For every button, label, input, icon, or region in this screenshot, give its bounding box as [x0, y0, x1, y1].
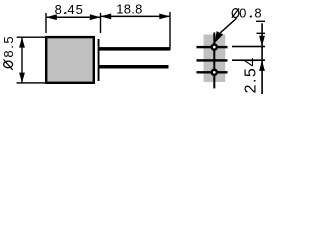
svg-text:2.54: 2.54 [242, 56, 259, 93]
pad hole 3 [212, 70, 217, 75]
dimension Ø0.8 text [232, 5, 264, 20]
dimension 18.8 line [101, 16, 171, 18]
pad row 1 line [197, 46, 228, 48]
extension line top (body top edge extended) [17, 37, 46, 38]
dimension Ø8.5 bottom arrow [19, 73, 25, 83]
dimension 8.45 right arrow [90, 14, 101, 20]
dimension 2.54 up arrow [259, 60, 265, 71]
extension line middle (x100.5) [100, 13, 101, 33]
svg-text:8.45: 8.45 [55, 2, 84, 17]
dimension 18.8 left arrow [101, 14, 112, 20]
component body (side view, cylinder seen from side) [46, 37, 94, 83]
flange / rear disc line [98, 39, 100, 81]
dimension Ø8.5 line [21, 37, 22, 83]
pad row 3 line [197, 71, 228, 73]
dimension 2.54 line (vertical, at right edge) [261, 23, 263, 94]
extension line bottom (body bottom edge extended) [17, 82, 46, 83]
svg-text:0.8: 0.8 [239, 5, 264, 20]
decimal point reinforcement 8.45 [65, 12, 67, 14]
svg-text:18.8: 18.8 [116, 1, 143, 16]
edge stub line lower [257, 33, 266, 34]
leader line for Ø0.8 [220, 18, 236, 33]
svg-text:8.5: 8.5 [1, 35, 16, 58]
dimension 8.45 left arrow [46, 14, 57, 20]
footprint vertical centerline [213, 33, 215, 89]
edge stub line upper [256, 21, 265, 22]
pad hole 1 [212, 45, 217, 50]
dimension Ø8.5 top arrow [19, 37, 25, 47]
lead 2 (bottom) [100, 65, 169, 69]
extension line left (x46) [45, 13, 46, 33]
dimension 18.8 right arrow [159, 14, 170, 20]
lead 1 (top) [100, 47, 171, 51]
leader arrowhead [215, 31, 224, 43]
extension line pad row1 (to right edge) [232, 46, 265, 48]
pad row 2 line (cross, no hole) [197, 59, 228, 61]
footprint pad field (gray) [204, 35, 226, 83]
extension line pad row2 (to right edge) [232, 59, 265, 61]
dimension 8.45 line [46, 17, 101, 19]
dimension Ø8.5 text (rotated) [1, 35, 16, 70]
extension line right (x170) [169, 12, 170, 49]
dimension 2.54 down arrow [259, 36, 265, 47]
